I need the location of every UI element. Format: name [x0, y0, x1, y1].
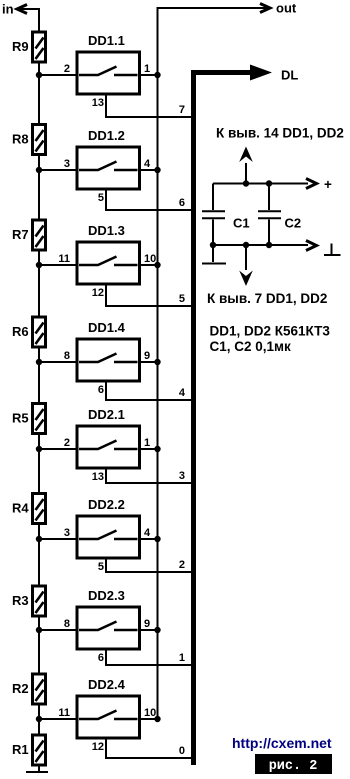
- svg-text:6: 6: [98, 384, 104, 396]
- svg-text:0: 0: [179, 745, 185, 757]
- node out: [158, 1, 297, 720]
- svg-text:3: 3: [179, 470, 185, 482]
- net ground rail: [213, 241, 341, 256]
- svg-text:DD1, DD2 К561КТ3: DD1, DD2 К561КТ3: [210, 324, 331, 339]
- svg-text:R3: R3: [12, 593, 29, 608]
- resistor R9: [12, 32, 46, 62]
- wire DD1.2 input from divider, pin 3: [36, 158, 77, 173]
- analog switch DD1.2: [77, 128, 140, 189]
- analog switch DD2.4: [77, 677, 140, 738]
- wire DD1.4 output to out bus, pin 9: [140, 350, 161, 365]
- wire DD1.4 control pin 6 to DL bus bit 4: [98, 381, 192, 400]
- analog switch DD2.2: [77, 497, 140, 558]
- wire DD2.2 control pin 5 to DL bus bit 2: [98, 558, 192, 573]
- svg-text:3: 3: [64, 527, 70, 539]
- svg-text:5: 5: [179, 293, 185, 305]
- svg-text:R4: R4: [12, 501, 29, 516]
- wire resistor chain: [38, 32, 40, 771]
- svg-text:10: 10: [144, 253, 156, 265]
- wire DD1.3 control pin 12 to DL bus bit 5: [92, 284, 192, 306]
- wire DD1.2 output to out bus, pin 4: [140, 158, 161, 173]
- wire DD2.4 control pin 12 to DL bus bit 0: [92, 738, 192, 758]
- svg-text:рис. 2: рис. 2: [269, 759, 318, 774]
- svg-text:DD2.4: DD2.4: [88, 677, 126, 692]
- value label DD1, DD2 type: [210, 324, 331, 339]
- resistor R5: [12, 404, 46, 434]
- wire DD2.1 input from divider, pin 2: [36, 437, 77, 452]
- svg-text:DD1.1: DD1.1: [88, 33, 125, 48]
- wire to pin 14 (supply): [216, 126, 344, 187]
- svg-text:R5: R5: [12, 411, 29, 426]
- resistor R2: [12, 674, 46, 704]
- ground (left of rail): [202, 242, 226, 264]
- svg-text:9: 9: [144, 350, 150, 362]
- wire DD2.4 input from divider, pin 11: [36, 707, 77, 722]
- wire DD1.3 input from divider, pin 11: [36, 253, 77, 268]
- svg-text:C2: C2: [285, 216, 302, 231]
- svg-text:4: 4: [144, 527, 151, 539]
- svg-text:1: 1: [179, 652, 185, 664]
- svg-text:R8: R8: [12, 132, 29, 147]
- svg-text:1: 1: [144, 437, 150, 449]
- wire DD1.1 control pin 13 to DL bus bit 7: [92, 94, 192, 117]
- svg-text:11: 11: [58, 253, 70, 265]
- svg-text:13: 13: [92, 97, 104, 109]
- svg-text:DL: DL: [281, 68, 298, 83]
- svg-text:13: 13: [92, 471, 104, 483]
- wire DD2.3 output to out bus, pin 9: [140, 618, 161, 633]
- svg-text:2: 2: [64, 63, 70, 75]
- ground (below R1): [26, 771, 48, 773]
- svg-text:C1, C2 0,1мк: C1, C2 0,1мк: [210, 339, 292, 354]
- wire DD1.4 input from divider, pin 8: [36, 350, 77, 365]
- svg-text:К выв. 7 DD1, DD2: К выв. 7 DD1, DD2: [207, 291, 327, 306]
- resistor R3: [12, 586, 46, 616]
- wire DD2.1 control pin 13 to DL bus bit 3: [92, 468, 192, 483]
- svg-text:6: 6: [98, 652, 104, 664]
- svg-text:R7: R7: [12, 227, 29, 242]
- capacitor C2: [258, 180, 301, 248]
- wire DD1.3 output to out bus, pin 10: [140, 253, 161, 268]
- svg-text:12: 12: [92, 287, 104, 299]
- resistor R1: [12, 735, 46, 765]
- svg-text:2: 2: [64, 437, 70, 449]
- svg-text:5: 5: [98, 192, 104, 204]
- analog switch DD2.1: [77, 407, 140, 468]
- svg-text:out: out: [276, 1, 297, 16]
- svg-text:R1: R1: [12, 742, 29, 757]
- svg-text:4: 4: [144, 158, 151, 170]
- value label C1, C2: [210, 339, 292, 354]
- svg-text:8: 8: [64, 350, 70, 362]
- analog switch DD1.1: [77, 33, 140, 94]
- capacitor C1: [202, 184, 250, 246]
- wire DD1.1 output to out bus, pin 1: [140, 63, 161, 78]
- svg-text:9: 9: [144, 618, 150, 630]
- svg-text:R2: R2: [12, 681, 29, 696]
- site label: [232, 735, 332, 751]
- bus DL: [194, 65, 299, 766]
- wire DD2.3 control pin 6 to DL bus bit 1: [98, 649, 192, 665]
- analog switch DD2.3: [77, 588, 140, 649]
- resistor R4: [12, 494, 46, 524]
- svg-text:3: 3: [64, 158, 70, 170]
- analog switch DD1.3: [77, 223, 140, 284]
- svg-text:DD2.3: DD2.3: [88, 588, 125, 603]
- wire DD1.2 control pin 5 to DL bus bit 6: [98, 189, 192, 210]
- svg-text:1: 1: [144, 63, 150, 75]
- resistor R6: [12, 317, 46, 347]
- wire DD2.4 output to out bus, pin 10: [140, 707, 161, 722]
- wire DD2.2 output to out bus, pin 4: [140, 527, 161, 542]
- svg-text:DD1.3: DD1.3: [88, 223, 125, 238]
- wire to pin 7 (ground): [207, 242, 327, 306]
- svg-text:C1: C1: [233, 216, 250, 231]
- svg-text:DD2.2: DD2.2: [88, 497, 125, 512]
- resistor R7: [12, 220, 46, 250]
- wire DD1.1 input from divider, pin 2: [36, 63, 77, 78]
- svg-text:12: 12: [92, 741, 104, 753]
- svg-text:7: 7: [179, 104, 185, 116]
- svg-text:2: 2: [179, 559, 185, 571]
- svg-text:+: +: [324, 177, 332, 192]
- analog switch DD1.4: [77, 320, 140, 381]
- figure label рис. 2: [255, 754, 332, 774]
- svg-text:R9: R9: [12, 39, 29, 54]
- svg-text:8: 8: [64, 618, 70, 630]
- svg-text:DD1.2: DD1.2: [88, 128, 125, 143]
- svg-text:in: in: [2, 2, 14, 17]
- svg-text:http://cxem.net: http://cxem.net: [232, 735, 332, 751]
- svg-text:5: 5: [98, 561, 104, 573]
- svg-text:11: 11: [58, 707, 70, 719]
- svg-text:R6: R6: [12, 324, 29, 339]
- resistor R8: [12, 125, 46, 155]
- wire DD2.2 input from divider, pin 3: [36, 527, 77, 542]
- net +supply rail: [213, 177, 332, 192]
- svg-text:К выв. 14 DD1, DD2: К выв. 14 DD1, DD2: [216, 126, 344, 141]
- svg-text:4: 4: [179, 387, 186, 399]
- svg-text:10: 10: [144, 707, 156, 719]
- svg-text:DD2.1: DD2.1: [88, 407, 125, 422]
- node in: [2, 2, 39, 33]
- svg-text:DD1.4: DD1.4: [88, 320, 126, 335]
- wire DD2.1 output to out bus, pin 1: [140, 437, 161, 452]
- wire DD2.3 input from divider, pin 8: [36, 618, 77, 633]
- svg-text:6: 6: [179, 197, 185, 209]
